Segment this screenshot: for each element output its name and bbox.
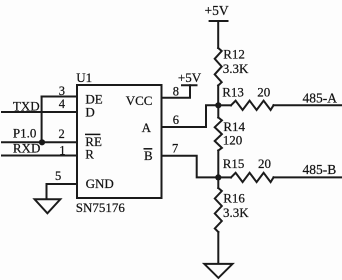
wire riser pin3 to P1.0: [41, 97, 43, 143]
svg-text:TXD: TXD: [13, 99, 40, 114]
wire node B to R16: [217, 177, 219, 188]
svg-text:+5V: +5V: [178, 70, 202, 85]
svg-text:GND: GND: [86, 176, 114, 191]
svg-text:R16: R16: [223, 190, 245, 205]
svg-text:1: 1: [59, 144, 65, 158]
resistor R13: [231, 101, 274, 110]
wire R13 to 485-A: [274, 104, 342, 106]
svg-text:485-B: 485-B: [303, 162, 337, 177]
ground (left, pin 5): [35, 199, 61, 213]
wire pin 7 (B) to node B: [162, 156, 219, 178]
wire R15 to 485-B: [274, 176, 342, 178]
node A junction dot: [215, 102, 221, 108]
svg-text:8: 8: [173, 85, 179, 99]
wire pin 5 (GND): [47, 184, 78, 199]
svg-text:SN75176: SN75176: [76, 200, 126, 215]
svg-text:3.3K: 3.3K: [223, 205, 249, 220]
wire node A to R14: [217, 105, 219, 117]
svg-text:P1.0: P1.0: [13, 126, 36, 141]
svg-text:+5V: +5V: [205, 3, 229, 18]
op-amp U1 (SN75176 transceiver box): [77, 85, 162, 198]
power +5V bar (pin 8): [182, 84, 197, 86]
svg-text:120: 120: [223, 133, 243, 148]
node B junction dot: [215, 174, 221, 180]
wire pin 3 (DE): [42, 96, 77, 98]
wire pin 6 (A) to node A: [162, 105, 219, 127]
svg-text:485-A: 485-A: [303, 90, 338, 105]
overline for B: [144, 148, 153, 150]
svg-text:VCC: VCC: [126, 93, 153, 108]
wire R14 to node B: [217, 151, 219, 178]
wire R12 to node A: [217, 86, 219, 106]
wire node B to R15: [218, 176, 231, 178]
wire TXD to pin 4 (D): [2, 111, 77, 113]
svg-text:B: B: [144, 148, 153, 163]
resistor R14: [215, 118, 222, 151]
svg-text:3.3K: 3.3K: [223, 61, 249, 76]
svg-text:7: 7: [172, 142, 178, 156]
power +5V bar (top): [210, 20, 228, 22]
ground (bottom, R16): [204, 264, 232, 278]
svg-text:U1: U1: [76, 70, 92, 85]
svg-text:R15: R15: [223, 156, 245, 171]
svg-text:20: 20: [258, 156, 271, 171]
svg-text:R13: R13: [222, 85, 244, 100]
wire RXD to pin 1 (R): [2, 155, 77, 157]
resistor R12: [215, 48, 222, 86]
svg-text:R12: R12: [223, 46, 245, 61]
svg-text:5: 5: [55, 169, 61, 183]
wire pin 8 (VCC) to +5V: [162, 85, 191, 98]
wire R16 to ground: [217, 232, 219, 264]
wire P1.0 to pin 2 (RE): [2, 141, 77, 143]
svg-text:3: 3: [59, 84, 65, 98]
resistor R15: [231, 173, 274, 182]
junction dot P1.0/riser: [39, 139, 45, 145]
svg-text:R: R: [85, 146, 94, 161]
svg-text:RXD: RXD: [13, 141, 40, 156]
svg-text:A: A: [142, 120, 152, 135]
wire +5V to R12: [217, 21, 219, 48]
svg-text:6: 6: [173, 113, 179, 127]
svg-text:4: 4: [59, 97, 66, 111]
overline for RE: [85, 133, 100, 135]
resistor R16: [215, 188, 222, 232]
svg-text:20: 20: [257, 85, 270, 100]
svg-text:2: 2: [59, 127, 65, 141]
wire node A to R13: [218, 104, 231, 106]
svg-text:D: D: [85, 104, 94, 119]
